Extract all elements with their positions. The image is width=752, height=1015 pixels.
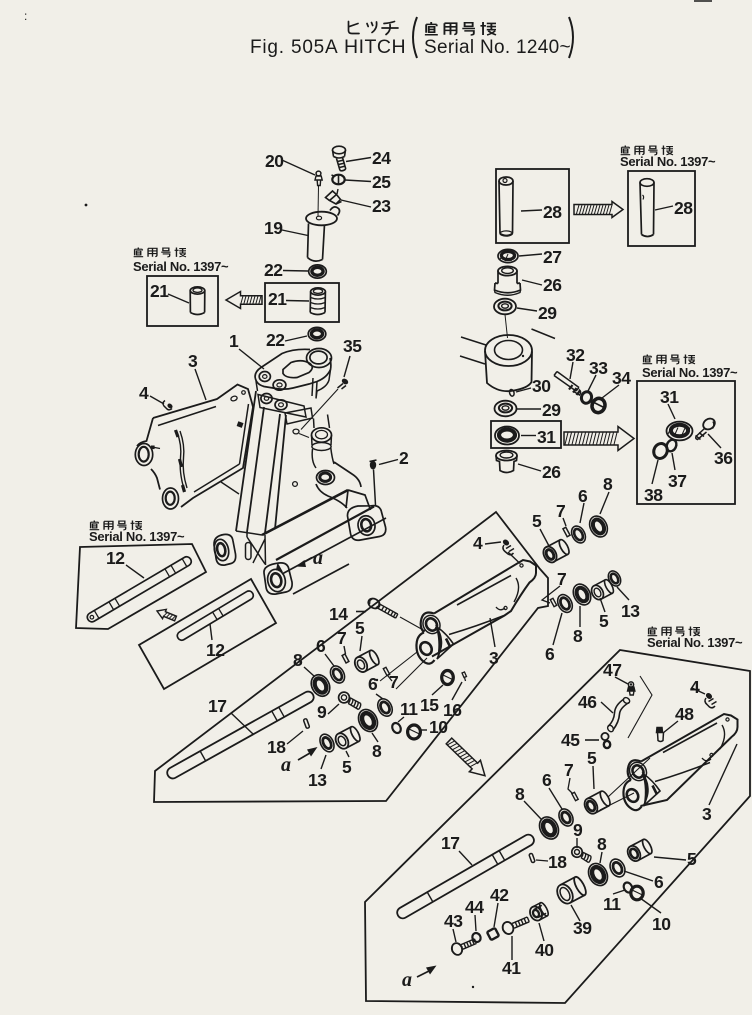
- svg-text:21: 21: [150, 281, 169, 301]
- svg-text:43: 43: [444, 911, 463, 931]
- svg-text:1: 1: [229, 331, 239, 351]
- svg-text:9: 9: [573, 820, 583, 840]
- svg-text:11: 11: [603, 894, 621, 914]
- svg-text:34: 34: [612, 368, 631, 388]
- svg-text:a: a: [281, 754, 291, 776]
- svg-text:22: 22: [264, 260, 283, 280]
- svg-text:12: 12: [106, 548, 125, 568]
- svg-text:5: 5: [532, 511, 542, 531]
- svg-text:28: 28: [543, 202, 562, 222]
- svg-text:a: a: [402, 969, 412, 991]
- svg-text:5: 5: [687, 849, 697, 869]
- svg-text:14: 14: [329, 604, 348, 624]
- svg-text:21: 21: [268, 289, 287, 309]
- svg-text:33: 33: [589, 358, 608, 378]
- svg-text:3: 3: [489, 648, 499, 668]
- svg-text:5: 5: [355, 618, 365, 638]
- svg-text:10: 10: [429, 717, 448, 737]
- svg-text:38: 38: [644, 485, 663, 505]
- svg-text:22: 22: [266, 330, 285, 350]
- svg-text:6: 6: [368, 674, 378, 694]
- svg-text:8: 8: [603, 474, 613, 494]
- svg-text:Serial No. 1240~: Serial No. 1240~: [424, 37, 571, 58]
- svg-text:26: 26: [542, 462, 561, 482]
- svg-text:7: 7: [337, 628, 346, 648]
- svg-text:11: 11: [400, 699, 418, 719]
- svg-text:2: 2: [399, 448, 409, 468]
- svg-text:5: 5: [342, 757, 352, 777]
- svg-text:44: 44: [465, 897, 484, 917]
- svg-text:5: 5: [599, 611, 609, 631]
- svg-text:45: 45: [561, 730, 580, 750]
- svg-text:19: 19: [264, 218, 283, 238]
- svg-text:3: 3: [188, 351, 198, 371]
- svg-text:Serial No. 1397~: Serial No. 1397~: [647, 635, 743, 650]
- svg-text:36: 36: [714, 448, 733, 468]
- svg-text:24: 24: [372, 148, 391, 168]
- svg-text:29: 29: [542, 400, 561, 420]
- svg-text:8: 8: [293, 650, 303, 670]
- svg-text:17: 17: [441, 833, 459, 853]
- svg-text:3: 3: [702, 804, 712, 824]
- svg-text:27: 27: [543, 247, 561, 267]
- svg-text:6: 6: [654, 872, 664, 892]
- svg-text:37: 37: [668, 471, 686, 491]
- svg-text:18: 18: [548, 852, 567, 872]
- svg-text:15: 15: [420, 695, 439, 715]
- svg-text:8: 8: [597, 834, 607, 854]
- svg-text:31: 31: [537, 427, 556, 447]
- svg-text:32: 32: [566, 345, 585, 365]
- svg-text:8: 8: [515, 784, 525, 804]
- svg-text:6: 6: [542, 770, 552, 790]
- svg-text:23: 23: [372, 196, 391, 216]
- svg-text:40: 40: [535, 940, 554, 960]
- svg-text:6: 6: [316, 636, 326, 656]
- svg-text:Serial No. 1397~: Serial No. 1397~: [133, 259, 229, 274]
- svg-text:41: 41: [502, 958, 521, 978]
- svg-text:5: 5: [587, 748, 597, 768]
- svg-text:26: 26: [543, 275, 562, 295]
- svg-text:4: 4: [139, 383, 149, 403]
- svg-text:8: 8: [573, 626, 583, 646]
- svg-text:Serial No. 1397~: Serial No. 1397~: [620, 154, 716, 169]
- svg-text:Serial No. 1397~: Serial No. 1397~: [89, 529, 185, 544]
- svg-text:7: 7: [389, 672, 398, 692]
- svg-text:7: 7: [564, 760, 573, 780]
- svg-text::: :: [24, 9, 27, 23]
- svg-text:10: 10: [652, 914, 671, 934]
- svg-text:Serial No. 1397~: Serial No. 1397~: [642, 365, 738, 380]
- svg-text:13: 13: [308, 770, 327, 790]
- svg-text:4: 4: [690, 677, 700, 697]
- svg-text:42: 42: [490, 885, 509, 905]
- svg-text:4: 4: [473, 533, 483, 553]
- svg-text:31: 31: [660, 387, 679, 407]
- svg-text:7: 7: [556, 501, 565, 521]
- svg-text:17: 17: [208, 696, 226, 716]
- svg-text:28: 28: [674, 198, 693, 218]
- svg-text:HITCH: HITCH: [344, 36, 406, 58]
- svg-text:7: 7: [557, 569, 566, 589]
- svg-text:a: a: [313, 547, 323, 569]
- svg-text:12: 12: [206, 640, 225, 660]
- svg-text:25: 25: [372, 172, 391, 192]
- svg-text:46: 46: [578, 692, 597, 712]
- svg-text:9: 9: [317, 702, 327, 722]
- svg-text:35: 35: [343, 336, 362, 356]
- svg-text:6: 6: [578, 486, 588, 506]
- svg-text:30: 30: [532, 376, 551, 396]
- svg-text:13: 13: [621, 601, 640, 621]
- svg-text:6: 6: [545, 644, 555, 664]
- svg-text:20: 20: [265, 151, 284, 171]
- svg-text:39: 39: [573, 918, 592, 938]
- svg-text:29: 29: [538, 303, 557, 323]
- svg-text:8: 8: [372, 741, 382, 761]
- svg-text:16: 16: [443, 700, 462, 720]
- svg-text:47: 47: [603, 660, 621, 680]
- svg-text:Fig. 505A: Fig. 505A: [250, 37, 339, 58]
